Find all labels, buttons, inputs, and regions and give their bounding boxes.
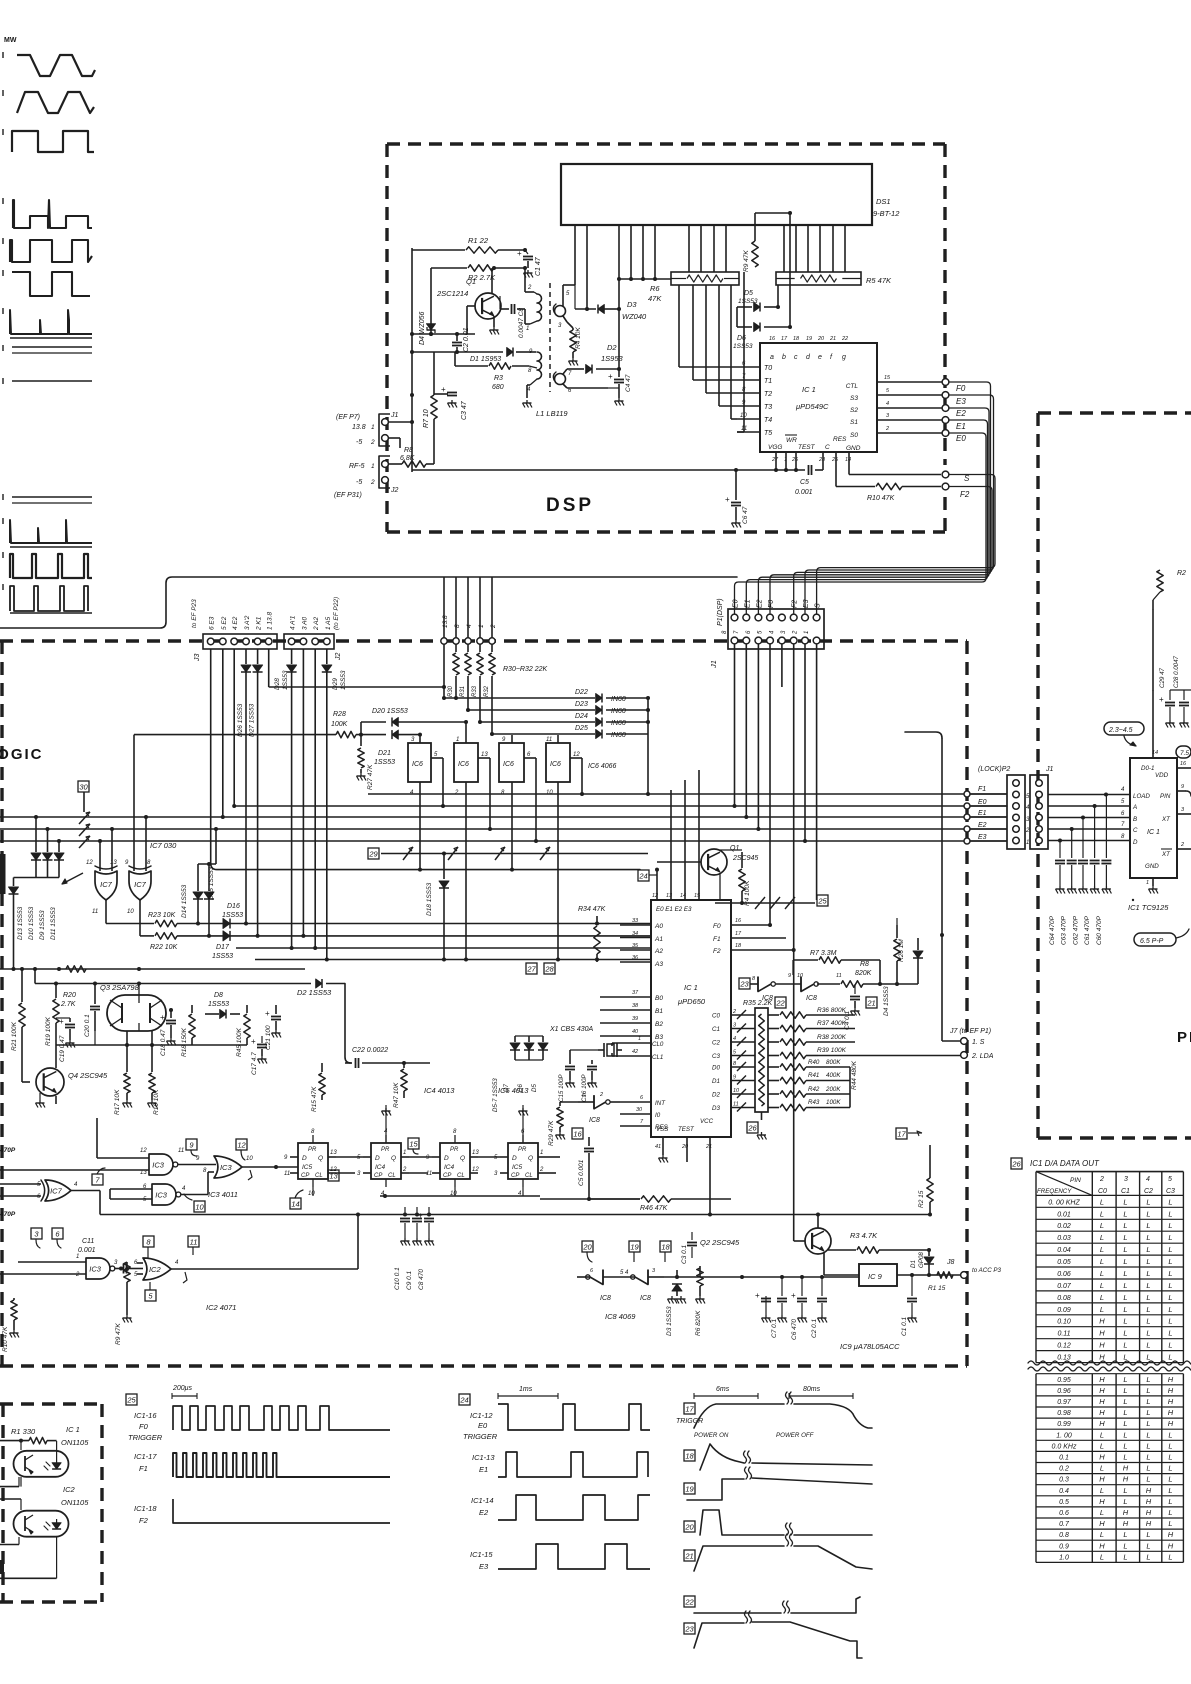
svg-text:R42: R42 bbox=[808, 1086, 820, 1093]
resistor R34 47K bbox=[578, 906, 606, 962]
svg-text:L: L bbox=[1146, 1305, 1150, 1314]
svg-text:Q2 2SC945: Q2 2SC945 bbox=[700, 1238, 740, 1247]
svg-text:CP: CP bbox=[374, 1173, 382, 1179]
marker 25 switch line bbox=[715, 895, 828, 909]
svg-text:C3 0.1: C3 0.1 bbox=[681, 1244, 688, 1264]
svg-text:R37 400K: R37 400K bbox=[817, 1020, 847, 1027]
svg-text:-5: -5 bbox=[356, 439, 362, 446]
svg-text:L: L bbox=[1168, 1257, 1172, 1266]
resistor R4 100K bbox=[720, 850, 751, 906]
svg-text:6 E3: 6 E3 bbox=[209, 616, 216, 630]
svg-text:(EF P7): (EF P7) bbox=[336, 414, 360, 421]
diode D14 1SS53 bbox=[181, 864, 203, 926]
resistor R1 330 bbox=[0, 1427, 57, 1444]
wire bus E0 bbox=[234, 805, 1007, 807]
marker 21 bbox=[866, 997, 877, 1008]
svg-text:IC2: IC2 bbox=[149, 1265, 162, 1274]
marker 29 control line bbox=[368, 847, 648, 860]
svg-text:C4 47: C4 47 bbox=[625, 374, 632, 392]
IC1 E pin wires up bbox=[655, 770, 699, 900]
marker 21 envelope bbox=[684, 1534, 872, 1571]
svg-text:4 E2: 4 E2 bbox=[232, 616, 239, 630]
svg-text:16: 16 bbox=[769, 336, 776, 342]
svg-text:Q: Q bbox=[528, 1155, 533, 1162]
IC1 bottom labels bbox=[768, 435, 861, 463]
svg-text:H: H bbox=[1099, 1329, 1105, 1338]
svg-text:+: + bbox=[608, 372, 613, 381]
svg-text:+: + bbox=[755, 1291, 760, 1300]
svg-text:L: L bbox=[1100, 1245, 1104, 1254]
wires J1 to TC9125 bbox=[1048, 787, 1130, 843]
svg-text:E1: E1 bbox=[956, 422, 966, 431]
black label bar bottom bbox=[0, 1560, 4, 1574]
capacitor C4 47 bbox=[608, 369, 632, 406]
zener D4 WZ056 bbox=[419, 268, 436, 345]
resistor R38 200K bbox=[768, 1034, 855, 1045]
svg-text:1: 1 bbox=[76, 1254, 79, 1260]
resistor R30 bbox=[448, 644, 459, 700]
IC1 left pins T0-T5 bbox=[737, 361, 772, 437]
svg-text:3 A0: 3 A0 bbox=[301, 616, 308, 630]
svg-text:H: H bbox=[1099, 1341, 1105, 1350]
svg-text:C3: C3 bbox=[712, 1053, 720, 1060]
svg-text:15: 15 bbox=[694, 893, 701, 899]
svg-text:2: 2 bbox=[490, 624, 497, 629]
resistor network R6 47K bbox=[648, 272, 739, 303]
diode D28 1SS53 bbox=[274, 649, 297, 950]
svg-text:L1 LB119: L1 LB119 bbox=[536, 409, 568, 418]
svg-text:80ms: 80ms bbox=[803, 1386, 821, 1393]
svg-text:R36 800K: R36 800K bbox=[817, 1007, 847, 1014]
svg-text:D16: D16 bbox=[227, 903, 240, 910]
svg-text:F2: F2 bbox=[139, 1516, 149, 1525]
svg-text:C15 100P: C15 100P bbox=[558, 1074, 565, 1102]
transistor Q2 2SC945 bbox=[700, 951, 831, 1275]
wire node 648 bbox=[646, 698, 650, 796]
marker 22 envelope bbox=[684, 1596, 860, 1613]
svg-text:2: 2 bbox=[599, 1092, 603, 1098]
svg-text:PR: PR bbox=[381, 1147, 390, 1153]
svg-text:INT: INT bbox=[655, 1100, 666, 1107]
svg-text:T2: T2 bbox=[764, 391, 772, 398]
svg-text:F2: F2 bbox=[960, 490, 970, 499]
svg-text:0.7: 0.7 bbox=[1059, 1521, 1070, 1528]
svg-text:F1: F1 bbox=[713, 936, 721, 943]
flip-flop IC5 #1 bbox=[284, 1129, 337, 1197]
svg-text:19: 19 bbox=[806, 336, 812, 342]
svg-text:L: L bbox=[1123, 1293, 1127, 1302]
svg-text:11: 11 bbox=[836, 973, 842, 979]
svg-text:5 4: 5 4 bbox=[620, 1270, 629, 1276]
resistor R21 100K bbox=[11, 967, 25, 1060]
wire control line 734 bbox=[134, 734, 336, 736]
wire ff row rail bbox=[313, 1187, 640, 1199]
table rows section 1 bbox=[1036, 1195, 1183, 1362]
svg-text:1 A5: 1 A5 bbox=[325, 616, 332, 630]
resistor R3 680 bbox=[455, 352, 529, 391]
svg-text:L: L bbox=[1168, 1441, 1172, 1450]
svg-text:H: H bbox=[1099, 1353, 1105, 1362]
svg-text:IC8: IC8 bbox=[589, 1117, 600, 1124]
marker 23 envelope bbox=[684, 1611, 862, 1658]
svg-text:R5 47K: R5 47K bbox=[866, 276, 892, 285]
svg-text:D26 1SS53: D26 1SS53 bbox=[237, 703, 244, 737]
svg-text:R30~R32 22K: R30~R32 22K bbox=[503, 666, 548, 673]
svg-text:IC 9: IC 9 bbox=[868, 1272, 883, 1281]
svg-text:H: H bbox=[1168, 1386, 1174, 1395]
svg-text:21: 21 bbox=[829, 336, 836, 342]
label IC3 4011 bbox=[208, 1190, 238, 1199]
svg-text:C18 0.47: C18 0.47 bbox=[160, 1029, 167, 1056]
svg-text:POWER ON: POWER ON bbox=[694, 1432, 729, 1439]
svg-text:J1: J1 bbox=[1045, 766, 1054, 773]
svg-text:H: H bbox=[1099, 1397, 1105, 1406]
svg-text:L: L bbox=[1168, 1329, 1172, 1338]
svg-text:L: L bbox=[1168, 1209, 1172, 1218]
marker 19 bbox=[629, 1241, 640, 1262]
svg-text:C63 470P: C63 470P bbox=[1061, 915, 1068, 945]
svg-text:S0: S0 bbox=[850, 432, 858, 439]
diode D5 1SS53 bbox=[737, 285, 780, 327]
svg-text:IC 1: IC 1 bbox=[66, 1425, 80, 1434]
resistor R44 480K bbox=[850, 1060, 858, 1107]
svg-text:R23 10K: R23 10K bbox=[148, 912, 176, 919]
svg-text:18: 18 bbox=[793, 336, 800, 342]
resistor R40 800K bbox=[768, 1059, 850, 1070]
svg-text:-5: -5 bbox=[356, 479, 362, 486]
display DS1 9-BT-12 bbox=[561, 164, 900, 225]
svg-text:16: 16 bbox=[735, 918, 742, 924]
svg-text:L: L bbox=[1100, 1508, 1104, 1517]
waveform IC1-12 E0 TRIGGER bbox=[463, 1404, 650, 1441]
IC1 bottom pin wires bbox=[774, 452, 849, 487]
svg-text:R40: R40 bbox=[808, 1059, 820, 1066]
diode D23 IN60 bbox=[468, 701, 650, 715]
label L1 LB119 bbox=[536, 409, 568, 418]
svg-text:12: 12 bbox=[573, 752, 580, 758]
svg-text:XT: XT bbox=[1161, 851, 1171, 858]
svg-text:+: + bbox=[265, 1009, 270, 1018]
diode D20 1SS53 bbox=[361, 708, 468, 735]
capacitor C4 0.1 bbox=[844, 984, 860, 1030]
svg-text:R26 1M: R26 1M bbox=[898, 939, 905, 962]
svg-text:15: 15 bbox=[409, 1139, 418, 1148]
table squiggle break bbox=[1028, 1361, 1191, 1371]
svg-text:C1: C1 bbox=[712, 1026, 720, 1033]
terminal E3 bbox=[942, 392, 966, 406]
svg-text:L: L bbox=[1168, 1464, 1172, 1473]
svg-text:S: S bbox=[815, 603, 822, 608]
capacitor C17 4.7 bbox=[251, 1036, 267, 1075]
svg-text:4: 4 bbox=[733, 1036, 736, 1042]
capacitors C60-C64 470P bbox=[1049, 795, 1111, 946]
capacitors C10 C9 C8 bbox=[394, 1207, 434, 1290]
svg-text:B2: B2 bbox=[655, 1021, 663, 1028]
scale 80ms bbox=[789, 1386, 853, 1399]
svg-text:R4 10K: R4 10K bbox=[575, 327, 582, 349]
svg-text:2: 2 bbox=[370, 479, 375, 486]
svg-text:22: 22 bbox=[684, 1597, 694, 1606]
svg-text:T3: T3 bbox=[764, 404, 772, 411]
svg-text:IC1-16: IC1-16 bbox=[134, 1411, 157, 1420]
svg-text:R3: R3 bbox=[494, 375, 503, 382]
marker 24 waveform bbox=[459, 1394, 470, 1405]
capacitor C2 0.1 bbox=[811, 1277, 827, 1338]
svg-text:CP: CP bbox=[443, 1173, 451, 1179]
svg-text:PR: PR bbox=[450, 1147, 459, 1153]
svg-text:IC1-15: IC1-15 bbox=[470, 1550, 493, 1559]
LOGIC label bbox=[0, 746, 44, 763]
svg-text:C1 0.1: C1 0.1 bbox=[901, 1316, 908, 1336]
svg-text:D27 1SS53: D27 1SS53 bbox=[249, 703, 256, 737]
svg-text:PLL: PLL bbox=[1177, 1029, 1191, 1046]
svg-text:L: L bbox=[1123, 1245, 1127, 1254]
svg-text:WZ040: WZ040 bbox=[622, 312, 647, 321]
svg-text:L: L bbox=[1168, 1508, 1172, 1517]
svg-text:F2: F2 bbox=[792, 600, 799, 608]
svg-text:10: 10 bbox=[127, 909, 134, 915]
svg-text:IC3: IC3 bbox=[89, 1264, 102, 1273]
svg-text:2: 2 bbox=[539, 1167, 544, 1173]
svg-text:R10 47K: R10 47K bbox=[867, 495, 895, 502]
svg-text:25: 25 bbox=[831, 457, 839, 463]
svg-text:L: L bbox=[1100, 1552, 1104, 1561]
svg-text:12: 12 bbox=[472, 1167, 479, 1173]
svg-text:0.8: 0.8 bbox=[1059, 1532, 1069, 1539]
svg-text:4 A'1: 4 A'1 bbox=[290, 615, 297, 630]
svg-text:TEST: TEST bbox=[678, 1126, 695, 1133]
svg-text:L: L bbox=[1100, 1486, 1104, 1495]
voltage regulator IC9 bbox=[824, 1264, 942, 1286]
wire bus E2 bbox=[0, 828, 1007, 830]
svg-text:T0: T0 bbox=[764, 365, 772, 372]
svg-text:LOAD: LOAD bbox=[1133, 793, 1150, 800]
svg-text:L: L bbox=[1146, 1293, 1150, 1302]
resistor R1 22 bbox=[412, 236, 527, 253]
wires DS1 to R6 node bbox=[617, 225, 671, 281]
svg-text:9: 9 bbox=[733, 1075, 736, 1081]
svg-text:P1(DSP): P1(DSP) bbox=[717, 598, 724, 626]
svg-text:L: L bbox=[1146, 1453, 1150, 1462]
wire J1 to bus bbox=[389, 248, 414, 472]
svg-text:L: L bbox=[1123, 1375, 1127, 1384]
svg-text:IC1-14: IC1-14 bbox=[471, 1496, 494, 1505]
resistor R18 150K bbox=[181, 1005, 195, 1057]
capacitor C20 0.1 bbox=[84, 984, 100, 1038]
wire 13.8 rail down bbox=[442, 644, 446, 700]
svg-text:Q4 2SC945: Q4 2SC945 bbox=[68, 1071, 108, 1080]
svg-text:L: L bbox=[1168, 1293, 1172, 1302]
scale 6ms bbox=[694, 1386, 758, 1399]
svg-text:C12 0.001: C12 0.001 bbox=[0, 1291, 2, 1320]
svg-text:0.4: 0.4 bbox=[1059, 1488, 1069, 1495]
svg-text:VGG: VGG bbox=[768, 444, 782, 451]
svg-text:C0: C0 bbox=[712, 1013, 720, 1020]
svg-text:IC7: IC7 bbox=[100, 880, 113, 889]
svg-text:R45 100K: R45 100K bbox=[236, 1027, 243, 1057]
svg-text:IC6 4066: IC6 4066 bbox=[588, 763, 617, 770]
svg-text:H: H bbox=[1168, 1541, 1174, 1550]
svg-text:D18 1SS53: D18 1SS53 bbox=[426, 882, 433, 916]
transformer right winding lower bbox=[553, 369, 608, 394]
marker 7 bbox=[92, 1168, 105, 1185]
svg-text:F1: F1 bbox=[139, 1464, 148, 1473]
marker 17 bbox=[896, 1128, 922, 1139]
label IC9 uA78L05ACC bbox=[840, 1342, 900, 1351]
svg-text:PIN: PIN bbox=[1160, 793, 1171, 800]
svg-text:C4 0.1: C4 0.1 bbox=[844, 1010, 851, 1030]
IC1 C/D pins to ladder bbox=[712, 1009, 755, 1112]
resistor network R5 47K bbox=[776, 272, 892, 285]
svg-text:22: 22 bbox=[775, 998, 785, 1007]
svg-text:E1: E1 bbox=[978, 810, 987, 817]
svg-text:RF-5: RF-5 bbox=[349, 463, 365, 470]
svg-text:L: L bbox=[1146, 1375, 1150, 1384]
svg-text:C22 0.0022: C22 0.0022 bbox=[352, 1047, 388, 1054]
connector P2 (LOCK) bbox=[978, 766, 1025, 849]
svg-text:R6 820K: R6 820K bbox=[695, 1310, 702, 1336]
svg-text:0.97: 0.97 bbox=[1057, 1399, 1072, 1406]
resistor R9 47K bbox=[115, 1262, 132, 1345]
svg-text:C10 0.1: C10 0.1 bbox=[394, 1267, 401, 1290]
nand gate IC3d bbox=[0, 1254, 121, 1279]
svg-text:R46 47K: R46 47K bbox=[640, 1205, 668, 1212]
svg-text:C60 470P: C60 470P bbox=[1096, 915, 1103, 945]
svg-text:E2: E2 bbox=[479, 1508, 489, 1517]
connector J2 bbox=[284, 597, 342, 661]
svg-text:L: L bbox=[1123, 1257, 1127, 1266]
svg-text:D7: D7 bbox=[503, 1084, 510, 1092]
svg-text:39: 39 bbox=[632, 1016, 638, 1022]
svg-text:18: 18 bbox=[685, 1451, 694, 1460]
svg-text:2: 2 bbox=[370, 439, 375, 446]
svg-text:L: L bbox=[1146, 1530, 1150, 1539]
svg-text:+: + bbox=[517, 249, 522, 258]
svg-text:12: 12 bbox=[86, 860, 93, 866]
svg-text:L: L bbox=[1168, 1353, 1172, 1362]
svg-text:IC8 4069: IC8 4069 bbox=[605, 1312, 636, 1321]
svg-text:H: H bbox=[1146, 1486, 1152, 1495]
label IC5 4013 bbox=[498, 1086, 529, 1143]
wire bus E3 bbox=[0, 840, 1007, 842]
resistor R26 1M bbox=[894, 918, 905, 986]
svg-text:23: 23 bbox=[684, 1624, 694, 1633]
wire D3 junction vertical bbox=[618, 279, 620, 369]
svg-text:(to EF P22): (to EF P22) bbox=[333, 597, 340, 630]
waveform sine-trapezoid 1 bbox=[3, 52, 95, 76]
diode D4 1SS53 bbox=[883, 938, 923, 1016]
svg-text:C0: C0 bbox=[1098, 1188, 1107, 1195]
svg-text:IC3: IC3 bbox=[155, 1190, 168, 1199]
svg-text:IC1-18: IC1-18 bbox=[134, 1504, 157, 1513]
svg-text:11: 11 bbox=[92, 909, 98, 915]
svg-text:L: L bbox=[1123, 1397, 1127, 1406]
svg-text:1: 1 bbox=[456, 737, 459, 743]
svg-text:IC6: IC6 bbox=[550, 761, 561, 768]
svg-text:13.8: 13.8 bbox=[442, 615, 449, 628]
flip-flop IC4 #3 bbox=[426, 1129, 479, 1197]
svg-text:IC8: IC8 bbox=[600, 1295, 611, 1302]
svg-text:IC 1: IC 1 bbox=[684, 983, 698, 992]
svg-text:L: L bbox=[1123, 1430, 1127, 1439]
capacitor C22 0.0022 bbox=[345, 1047, 388, 1068]
svg-text:L: L bbox=[1168, 1519, 1172, 1528]
marker 26 ladder bbox=[747, 1112, 767, 1140]
svg-text:CL: CL bbox=[457, 1173, 465, 1179]
diode D26 1SS53 bbox=[237, 649, 251, 926]
svg-text:IN60: IN60 bbox=[611, 732, 626, 739]
resistor R7 10 bbox=[423, 352, 437, 443]
svg-text:17: 17 bbox=[897, 1129, 906, 1138]
resistor R16 10K bbox=[148, 1031, 161, 1115]
svg-text:L: L bbox=[1146, 1541, 1150, 1550]
svg-text:F0: F0 bbox=[713, 923, 721, 930]
marker 28 bbox=[544, 963, 555, 974]
svg-text:4: 4 bbox=[1146, 1176, 1150, 1183]
xor gate IC7c bbox=[0, 1180, 100, 1215]
svg-text:R20: R20 bbox=[63, 992, 76, 999]
MW label bbox=[4, 37, 17, 44]
svg-text:L: L bbox=[1146, 1397, 1150, 1406]
waveform tall pulses 2 bbox=[3, 584, 92, 613]
svg-text:TRIGGER: TRIGGER bbox=[463, 1432, 498, 1441]
svg-text:DS1: DS1 bbox=[876, 197, 891, 206]
svg-text:L: L bbox=[1168, 1317, 1172, 1326]
svg-text:A: A bbox=[1132, 804, 1137, 811]
svg-text:C8 470: C8 470 bbox=[418, 1269, 425, 1290]
marker 23 bbox=[739, 978, 758, 989]
marker 17 trigger envelope bbox=[676, 1392, 872, 1439]
waveform flat pair bbox=[3, 345, 92, 353]
IC1 INT I0 RES pins bbox=[620, 1095, 669, 1131]
svg-text:R47 10K: R47 10K bbox=[393, 1082, 400, 1108]
svg-text:L: L bbox=[1100, 1530, 1104, 1539]
capacitor C21 100 bbox=[265, 1005, 281, 1050]
svg-text:J1: J1 bbox=[390, 412, 399, 419]
svg-text:L: L bbox=[1168, 1486, 1172, 1495]
marker 5 bbox=[145, 1282, 156, 1301]
diode D8 1SS53 bbox=[205, 992, 240, 1019]
svg-text:L: L bbox=[1146, 1419, 1150, 1428]
svg-text:IC6: IC6 bbox=[412, 761, 423, 768]
svg-text:1ms: 1ms bbox=[519, 1386, 533, 1393]
svg-text:E0: E0 bbox=[978, 799, 987, 806]
black label bar bbox=[0, 854, 6, 894]
svg-text:L: L bbox=[1123, 1453, 1127, 1462]
svg-text:R28: R28 bbox=[333, 711, 346, 718]
svg-text:IC1-13: IC1-13 bbox=[472, 1453, 495, 1462]
svg-text:Q: Q bbox=[318, 1155, 323, 1162]
svg-text:11: 11 bbox=[190, 1237, 198, 1246]
svg-text:+: + bbox=[791, 1291, 796, 1300]
label D2 1SS53 bbox=[297, 988, 332, 997]
label IC1 TC9125 bbox=[1128, 899, 1169, 912]
svg-text:R15 47K: R15 47K bbox=[311, 1086, 318, 1112]
marker 20 envelope bbox=[684, 1510, 872, 1535]
svg-text:J8: J8 bbox=[946, 1259, 955, 1266]
svg-text:L: L bbox=[1123, 1353, 1127, 1362]
or gate IC2 bbox=[134, 1215, 358, 1284]
svg-text:200K: 200K bbox=[825, 1086, 841, 1093]
svg-text:L: L bbox=[1168, 1305, 1172, 1314]
wire base bus bbox=[412, 332, 475, 336]
svg-text:D0-1: D0-1 bbox=[1141, 765, 1154, 772]
transformer core bbox=[549, 283, 551, 392]
svg-text:0.99: 0.99 bbox=[1057, 1421, 1071, 1428]
svg-text:to EF P23: to EF P23 bbox=[191, 599, 198, 628]
svg-text:PIN: PIN bbox=[1070, 1177, 1081, 1184]
svg-text:+: + bbox=[1159, 695, 1164, 704]
